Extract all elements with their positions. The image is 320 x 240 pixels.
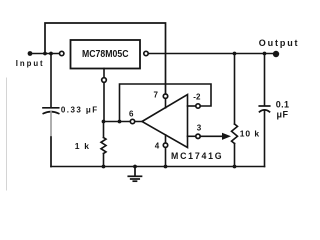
junction potentiometer branch [233,52,237,56]
svg-text:1 k: 1 k [75,141,90,151]
junction rail pin4 [164,165,168,169]
svg-text:7: 7 [154,91,159,100]
ground symbol [128,167,141,182]
wire pin 4 to ground rail [165,147,167,166]
svg-text:Input: Input [16,59,45,68]
input terminal dot [28,51,33,56]
pin 3 stub [188,135,196,137]
capacitor C1 0.33uF [43,54,59,167]
junction rail R1 [102,165,106,169]
svg-text:0.33 μF: 0.33 μF [61,105,99,114]
svg-text:0.1: 0.1 [276,100,290,110]
regulator ground pin wire [103,69,105,122]
pin 7 stub [165,98,167,107]
resistor R1 1k [101,122,106,167]
svg-text:6: 6 [129,109,134,118]
wire output [148,53,276,55]
pin 3 circle [196,134,200,138]
svg-text:MC78M05C: MC78M05C [82,48,129,60]
svg-text:Output: Output [259,38,300,48]
pin 4 stub [165,135,167,143]
wire feedback pin6 to pin2 [120,84,212,122]
output terminal dot [273,51,279,57]
junction bypass/input [43,52,47,56]
junction rail ground [133,165,137,169]
junction node resistor R1 [102,120,106,124]
regulator input pin [60,51,64,55]
svg-text:10 k: 10 k [240,128,260,138]
svg-text:3: 3 [197,123,202,132]
ground rail [51,166,265,168]
wire bypass input to op-amp V+ [45,23,166,94]
junction feedback tap [118,120,122,124]
pin 6 circle [130,119,134,123]
capacitor C2 0.1uF [259,54,269,167]
pin 2 stub [188,105,196,107]
pin 7 circle [163,94,167,98]
pin 4 circle [163,143,167,147]
potentiometer R2 10k [232,54,238,167]
regulator ground pin [102,78,107,83]
junction capacitor branch [49,52,53,56]
svg-text:-2: -2 [193,93,201,102]
wire input [30,53,59,55]
wire op-amp output node [104,121,143,123]
junction capacitor C2 branch [263,52,267,56]
op-amp U2 triangle [142,95,188,148]
junction rail pot [233,165,237,169]
faint page scan line [6,78,8,190]
svg-text:μF: μF [277,109,289,119]
svg-text:4: 4 [155,141,160,150]
svg-text:MC1741G: MC1741G [171,151,223,161]
regulator output pin [144,51,148,55]
wiper arrowhead [222,133,231,140]
wire pin 3 to wiper [200,135,223,137]
pin 2 circle [196,104,200,108]
regulator U1 box [71,40,141,69]
